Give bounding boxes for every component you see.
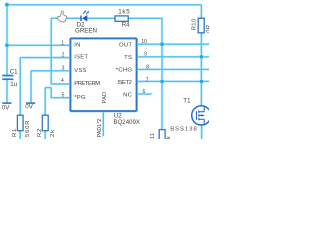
wire IN net to pin 1: [7, 44, 71, 46]
svg-text:*PG: *PG: [74, 95, 86, 101]
svg-text:BQ2409X: BQ2409X: [114, 119, 140, 126]
wire LED anode down to PRETERM pin 4: [51, 18, 70, 84]
svg-text:0V: 0V: [25, 104, 33, 111]
wire vertical from OUT net down to bottom resistor: [161, 44, 163, 129]
wire right vertical through R10 down to T1 drain: [200, 5, 202, 106]
svg-text:GREEN: GREEN: [75, 27, 97, 34]
svg-text:0R: 0R: [206, 25, 209, 33]
svg-text:R1: R1: [12, 128, 18, 137]
svg-text:PRETERM: PRETERM: [74, 81, 100, 87]
svg-text:R4: R4: [122, 22, 130, 29]
wire *CHG pin 8 to right edge: [137, 68, 210, 70]
resistor R4: [115, 16, 128, 21]
svg-text:PAD: PAD: [102, 92, 108, 104]
svg-text:ISET2: ISET2: [117, 80, 132, 86]
resistor bottom right (partially cut off): [159, 130, 165, 142]
svg-text:7: 7: [146, 77, 149, 83]
svg-text:1: 1: [61, 40, 64, 46]
svg-text:VSS: VSS: [74, 68, 87, 74]
wire LED net left segment: [51, 17, 80, 19]
wire NC pin 6 stub: [137, 93, 152, 95]
svg-text:3: 3: [62, 65, 65, 71]
transistor T1 BSS138 (N-MOSFET): [192, 106, 211, 125]
svg-text:ISET: ISET: [74, 55, 88, 61]
svg-text:T1: T1: [183, 98, 191, 105]
svg-text:0V: 0V: [2, 105, 10, 112]
svg-text:2k: 2k: [50, 129, 56, 137]
wire top rail from node A to R10 corner: [7, 4, 201, 6]
node A junction top-left: [5, 2, 10, 7]
LED D2: [80, 10, 89, 22]
wire ISET2 pin 7 to right edge: [137, 80, 210, 82]
svg-text:R11: R11: [150, 133, 156, 139]
svg-text:560R: 560R: [25, 120, 31, 137]
svg-text:1u: 1u: [10, 81, 17, 88]
wire TS pin 9 to right edge: [137, 56, 210, 58]
wire glow underlay for all nets: [7, 5, 209, 139]
svg-text:C1: C1: [10, 68, 18, 75]
wire T1 source down to bottom edge: [201, 125, 203, 139]
wire corner down to OUT net: [161, 18, 163, 44]
svg-text:R2: R2: [37, 128, 43, 137]
resistor R2: [42, 115, 48, 131]
wire VSS pin 3 to ground: [31, 71, 71, 103]
svg-text:2: 2: [62, 52, 65, 58]
wire PAD pin stub below U2: [102, 111, 104, 136]
svg-text:NC: NC: [123, 92, 133, 98]
svg-text:R10: R10: [192, 18, 198, 30]
node junction ISET2 net right: [199, 79, 204, 84]
svg-text:OUT: OUT: [119, 42, 132, 48]
wire R2 bottom stub: [44, 131, 46, 139]
wire left vertical from top rail down to C1: [6, 5, 8, 75]
wire R4 to corner segment: [128, 17, 162, 19]
ground 0V symbol mid: [26, 102, 35, 104]
svg-text:PAD1*2: PAD1*2: [97, 119, 103, 138]
svg-text:*CHG: *CHG: [116, 68, 133, 74]
wire ISET pin 2 to R1: [20, 58, 70, 116]
svg-text:TS: TS: [124, 55, 132, 61]
node junction IN net: [5, 43, 10, 48]
wire LED to R4 segment: [87, 17, 115, 19]
resistor R10: [198, 18, 204, 33]
node junction TS net / R10: [199, 54, 204, 59]
node junction ISET2 net left: [160, 79, 165, 84]
resistor R1: [17, 115, 23, 131]
svg-text:1k: 1k: [166, 136, 172, 139]
svg-text:1k5: 1k5: [118, 9, 130, 16]
wire OUT pin 10 to right edge: [137, 43, 210, 45]
ground 0V symbol left: [2, 102, 11, 104]
svg-text:4: 4: [61, 78, 64, 84]
capacitor C1: [2, 75, 13, 80]
wire C1 bottom to ground: [6, 79, 8, 102]
node junction OUT net: [160, 42, 165, 47]
mouse hand cursor over LED wire: [57, 10, 68, 22]
svg-text:5: 5: [62, 92, 65, 98]
wire *PG pin 5 staircase to R2: [45, 88, 70, 116]
svg-text:10: 10: [141, 39, 147, 45]
svg-text:8: 8: [146, 64, 149, 70]
svg-text:6: 6: [143, 89, 146, 95]
svg-text:IN: IN: [74, 42, 80, 48]
svg-text:BSS138: BSS138: [170, 126, 197, 132]
IC U2 BQ2409X body: [71, 39, 137, 112]
svg-text:9: 9: [144, 52, 147, 58]
wire R1 bottom stub: [19, 131, 21, 139]
